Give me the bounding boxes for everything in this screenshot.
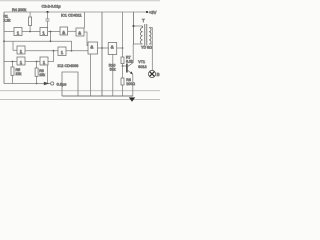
inverter U2e box lower right — [58, 47, 66, 56]
wire gate4 out down to NAND A input1 — [84, 32, 88, 46]
wire lower-mid out up to junction — [48, 51, 54, 62]
svg-text:IC2 CD4069: IC2 CD4069 — [58, 64, 79, 68]
wire emitter down to ground bus — [132, 74, 134, 96]
node junction on lower chain wire — [71, 50, 73, 52]
node junction R6 bottom — [36, 83, 38, 85]
wire R4 top lead from rail — [29, 12, 31, 17]
gate U1a box 3 — [60, 27, 68, 35]
node junction feedback tee — [50, 40, 52, 42]
wire secondary top to earphone drop — [149, 28, 152, 71]
resistor R8 — [121, 78, 124, 85]
resistor R4 — [29, 17, 32, 26]
wire primary bottom stub — [133, 43, 142, 45]
ground symbol — [129, 97, 135, 101]
resistor R6 — [35, 68, 38, 76]
output arrow on bottom wire — [44, 82, 50, 86]
wire inverter lower-right out to NAND A input2 — [66, 50, 88, 52]
svg-text:IC1 CD4011: IC1 CD4011 — [61, 13, 82, 17]
earphone B cross — [150, 72, 155, 77]
wire R6 top lead — [36, 62, 38, 69]
node +3V terminal dot — [146, 11, 148, 13]
svg-text:&: & — [62, 30, 65, 35]
wire left vertical to inverter lower-left in — [4, 61, 17, 63]
wire inverter mid out to inverter lower-right in — [25, 50, 58, 52]
wire inverter1 out to inverter2 in — [22, 31, 40, 33]
wire lower-mid bottom drop to output wire — [47, 66, 49, 84]
svg-text:100Ω: 100Ω — [126, 82, 135, 86]
svg-text:1: 1 — [42, 30, 45, 35]
transformer T core — [145, 24, 147, 46]
inverter U2c box lower row — [17, 57, 25, 65]
scan artifact lower rule 1 — [0, 90, 160, 92]
wire primary top stub — [134, 25, 143, 27]
transformer T primary winding — [141, 26, 143, 44]
svg-text:&: & — [90, 44, 93, 49]
svg-text:18k: 18k — [39, 73, 45, 77]
wire R5 top lead — [12, 62, 14, 68]
svg-text:T: T — [142, 18, 145, 23]
gate U1b box 4 — [76, 28, 84, 36]
svg-text:1: 1 — [20, 49, 23, 54]
inverter U2a box 1 — [14, 28, 22, 36]
svg-text:C2-2-0.01μ: C2-2-0.01μ — [42, 4, 61, 8]
transistor VT1 collector — [127, 63, 133, 67]
wire ground bus — [62, 95, 133, 97]
inverter U2d box lower mid — [40, 57, 48, 65]
wire long vertical rail to ground bus — [101, 12, 103, 96]
svg-text:1: 1 — [17, 30, 20, 35]
wire feedback from inverter2 output down-right to lower chain — [51, 32, 72, 51]
scan artifact top rule — [0, 0, 160, 2]
node junction R5 top — [12, 61, 14, 63]
resistor R5 — [11, 67, 14, 75]
wire base node to transistor base — [123, 65, 127, 67]
capacitor C2 bottom lead — [47, 21, 49, 27]
wire R5 bottom lead — [12, 75, 14, 83]
wire input row to inverter 1 — [4, 31, 14, 33]
wire NAND B out to divider — [117, 47, 123, 49]
wire branch down to inverter mid input — [13, 41, 17, 50]
svg-text:R4 200k: R4 200k — [12, 8, 26, 12]
node junction divider top — [122, 47, 124, 49]
svg-text:+3V: +3V — [149, 10, 157, 15]
scan artifact lower rule 2 — [0, 99, 160, 101]
wire R7 bottom to base node — [122, 64, 124, 67]
node junction R6 top — [36, 61, 38, 63]
svg-text:&: & — [111, 45, 114, 50]
svg-text:2.2k: 2.2k — [3, 19, 10, 23]
node junction lower chain tee — [53, 50, 55, 52]
node junction R4 bottom — [29, 31, 31, 33]
NAND U1d box B — [108, 43, 117, 55]
wire rail drop to gate4 top — [84, 12, 86, 28]
wire R6 bottom lead — [36, 76, 38, 83]
wire ground-loop rectangle — [62, 72, 78, 96]
node junction inverter2 output — [50, 31, 52, 33]
wire NAND B ground pin drop — [112, 55, 114, 97]
capacitor C2 top lead — [47, 12, 49, 19]
wire gate3 out to gate4 in — [68, 30, 76, 32]
svg-text:B: B — [157, 72, 160, 77]
resistor R7 — [121, 57, 124, 64]
node capacitor C2 rail junction — [46, 11, 48, 13]
wire inverter lower-left out to lower-mid in — [25, 61, 40, 63]
transformer T secondary winding — [149, 28, 151, 44]
svg-text:&: & — [78, 31, 81, 36]
transistor VT1 emitter arrowhead — [130, 71, 133, 74]
svg-text:1: 1 — [61, 50, 64, 55]
svg-text:22k: 22k — [16, 72, 22, 76]
wire mid row from left vertical — [4, 40, 51, 42]
wire R4 bottom lead — [29, 26, 31, 32]
svg-text:1: 1 — [43, 60, 46, 65]
wire base node down to R8 — [122, 66, 124, 78]
wire rail drop to transformer primary top — [133, 12, 135, 44]
node output terminal circle — [51, 82, 54, 85]
node base node dot — [122, 65, 124, 67]
wire +3V top rail — [4, 11, 147, 13]
svg-text:8.2k: 8.2k — [126, 60, 133, 64]
wire rail drop to R7 — [122, 12, 124, 57]
wire secondary bottom stub — [149, 43, 152, 45]
svg-text:1: 1 — [20, 60, 23, 65]
inverter U2b box 2 — [40, 28, 48, 36]
svg-text:6.8μs: 6.8μs — [57, 82, 67, 87]
capacitor C2 plates — [46, 19, 50, 21]
node junction mid wire at left vertical — [3, 40, 5, 42]
wire NAND A ground pin drop — [90, 54, 92, 96]
wire R8 bottom to ground bus — [122, 85, 124, 96]
wire collector up to transformer primary bottom — [132, 44, 134, 63]
transistor VT1 emitter — [127, 70, 132, 74]
wire NAND A out to NAND B in — [98, 47, 110, 49]
inverter U2f box mid — [17, 46, 25, 54]
NAND U1c box A — [88, 42, 98, 54]
svg-text:9013: 9013 — [138, 65, 146, 69]
svg-text:VT1: VT1 — [138, 60, 145, 64]
earphone B body — [148, 70, 155, 77]
wire inverter2 out to gate 3 in — [48, 31, 60, 33]
wire left supply vertical — [3, 12, 5, 84]
svg-text:51k: 51k — [110, 68, 116, 72]
wire bottom output run — [4, 83, 50, 85]
svg-text:YD 8Ω: YD 8Ω — [141, 45, 152, 49]
transistor VT1 base bar — [126, 64, 128, 73]
node junction at long vertical — [101, 47, 103, 49]
node primary top junction dot — [132, 25, 134, 27]
